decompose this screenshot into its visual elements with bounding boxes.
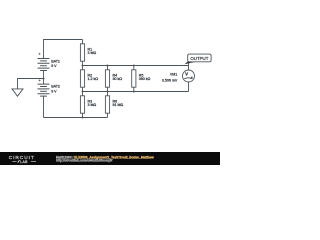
resistor R3 bbox=[80, 92, 96, 118]
svg-text:9 V: 9 V bbox=[51, 64, 57, 68]
wire rail B bbox=[83, 91, 189, 93]
svg-text:BAT1: BAT1 bbox=[51, 59, 60, 63]
svg-text:3 MΩ: 3 MΩ bbox=[88, 51, 97, 55]
svg-text:3 MΩ: 3 MΩ bbox=[88, 103, 97, 107]
junction rail B col1 bbox=[82, 91, 84, 93]
svg-text:http://circuitlab.com/c/4m2bd6: http://circuitlab.com/c/4m2bd6ncsq9f bbox=[56, 158, 113, 162]
footer logo CIRCUITLAB bbox=[9, 155, 36, 164]
wire battery top to R1 top bbox=[44, 40, 83, 59]
wire battery mid to ground bbox=[18, 79, 44, 89]
junction rail A col1 bbox=[82, 65, 84, 67]
svg-text:9 V: 9 V bbox=[51, 90, 57, 94]
junction rail A col3 bbox=[133, 65, 135, 67]
svg-text:BAT2: BAT2 bbox=[51, 85, 60, 89]
junction rail C col1 bbox=[82, 117, 84, 119]
junction rail B col3 bbox=[133, 91, 135, 93]
ground bbox=[12, 89, 23, 96]
svg-text:91 MΩ: 91 MΩ bbox=[113, 103, 124, 107]
resistor R4 bbox=[105, 66, 122, 92]
footer bar bbox=[0, 152, 220, 165]
resistor R6 bbox=[105, 92, 123, 118]
flag OUTPUT bbox=[185, 54, 212, 64]
svg-text:1.2 kΩ: 1.2 kΩ bbox=[88, 77, 99, 81]
junction rail A col2 bbox=[107, 65, 109, 67]
svg-text:V: V bbox=[185, 71, 188, 76]
voltmeter VM1 bbox=[162, 62, 195, 92]
battery BAT1 bbox=[38, 53, 60, 71]
wire BAT1 bottom to BAT2 top bbox=[43, 71, 45, 85]
resistor R2 bbox=[80, 66, 98, 92]
junction rail B col2 bbox=[107, 91, 109, 93]
wire BAT2 bottom to rail C bbox=[43, 96, 45, 117]
svg-text:30 kΩ: 30 kΩ bbox=[113, 77, 123, 81]
svg-text:3.506 mV: 3.506 mV bbox=[162, 78, 178, 82]
wire rail C bbox=[44, 117, 108, 119]
junction battery mid bbox=[43, 78, 45, 80]
battery BAT2 bbox=[38, 79, 60, 96]
resistor R1 bbox=[80, 40, 96, 66]
svg-text:VM1: VM1 bbox=[170, 73, 177, 77]
svg-text:360 kΩ: 360 kΩ bbox=[139, 77, 151, 81]
wire rail A bbox=[83, 65, 189, 67]
svg-text:LAB: LAB bbox=[20, 160, 28, 164]
svg-text:OUTPUT: OUTPUT bbox=[190, 56, 208, 61]
resistor R5 bbox=[132, 66, 151, 92]
